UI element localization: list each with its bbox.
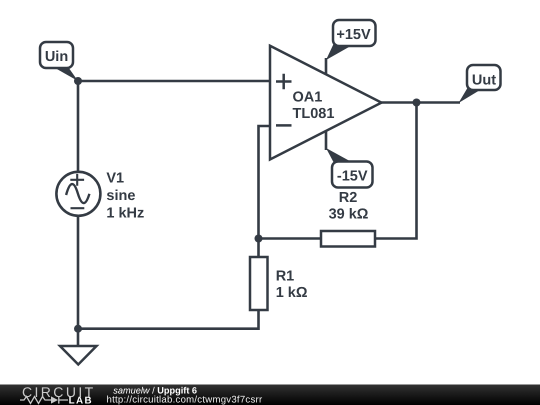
svg-text:-15V: -15V [337, 169, 368, 185]
svg-text:Uin: Uin [45, 49, 68, 65]
svg-text:+15V: +15V [336, 27, 371, 43]
svg-text:1 kΩ: 1 kΩ [276, 285, 308, 301]
svg-text:39 kΩ: 39 kΩ [329, 206, 369, 222]
svg-text:http://circuitlab.com/ctwmgv3f: http://circuitlab.com/ctwmgv3f7csrr [107, 394, 263, 405]
svg-text:sine: sine [106, 188, 135, 204]
svg-text:OA1: OA1 [293, 89, 323, 105]
svg-text:R2: R2 [339, 190, 358, 206]
svg-text:R1: R1 [276, 269, 295, 285]
svg-text:1 kHz: 1 kHz [106, 206, 144, 222]
svg-text:V1: V1 [106, 171, 124, 187]
svg-text:Uut: Uut [472, 73, 496, 89]
svg-text:LAB: LAB [69, 395, 93, 405]
svg-text:TL081: TL081 [293, 106, 335, 122]
